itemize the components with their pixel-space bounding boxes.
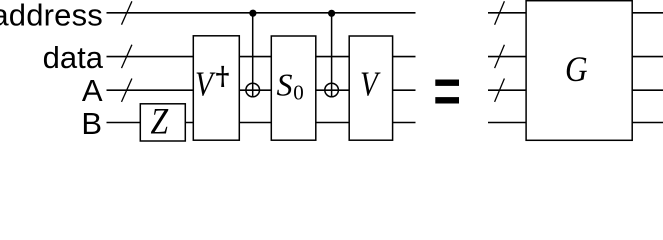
svg-text:V: V	[360, 65, 381, 104]
wire B (right)	[488, 122, 663, 124]
gate S0 box	[271, 36, 316, 140]
bus slash address (right)	[495, 1, 505, 24]
svg-text:data: data	[43, 40, 104, 75]
svg-text:address: address	[0, 0, 103, 33]
svg-text:G: G	[565, 49, 588, 89]
gate V box	[349, 36, 392, 140]
dagger stem	[221, 66, 224, 87]
wire address (right)	[488, 12, 663, 14]
svg-text:Z: Z	[151, 102, 169, 143]
equals sign bottom bar	[435, 97, 459, 103]
cnot target 2	[325, 83, 339, 97]
cnot target 1	[246, 83, 260, 97]
bus slash A (left)	[122, 79, 132, 102]
bus slash address (left)	[122, 1, 132, 24]
gate Z box	[140, 104, 185, 141]
svg-text:B: B	[81, 106, 102, 141]
control line 2	[331, 13, 333, 97]
bus slash A (right)	[495, 79, 505, 102]
gate V-dagger box	[193, 36, 239, 140]
wire data (left)	[107, 56, 416, 58]
quantum circuit diagram	[0, 0, 663, 142]
cnot control dot 2	[328, 10, 335, 17]
bus slash data (left)	[122, 45, 132, 68]
svg-text:0: 0	[293, 81, 304, 105]
svg-text:A: A	[82, 73, 103, 108]
svg-text:S: S	[277, 67, 293, 103]
wire A (right)	[488, 89, 663, 91]
wire address (left)	[107, 12, 416, 14]
gate G box	[526, 1, 632, 141]
cnot control dot 1	[249, 10, 256, 17]
control line 1	[252, 13, 254, 97]
bus slash data (right)	[495, 45, 505, 68]
svg-text:V: V	[195, 65, 216, 104]
wire B (left)	[107, 122, 416, 124]
dagger crossbar	[216, 73, 229, 76]
wire A (left)	[107, 89, 416, 91]
equals sign top bar	[435, 80, 459, 86]
wire data (right)	[488, 56, 663, 58]
